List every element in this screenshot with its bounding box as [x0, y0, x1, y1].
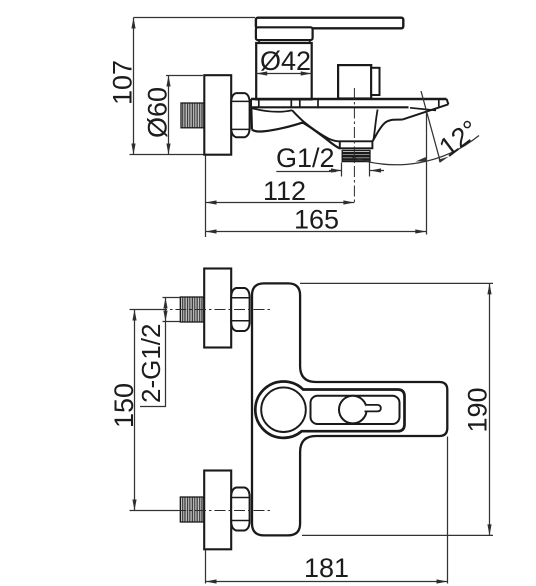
- spout sliver under deck (left): [251, 108, 292, 112]
- handle collar ring: [259, 40, 310, 43]
- svg-text:190: 190: [463, 387, 493, 432]
- spout right inner curve: [374, 110, 378, 140]
- deck plate band: [251, 99, 448, 107]
- svg-text:181: 181: [304, 553, 349, 583]
- body outline (T shape): [252, 283, 447, 535]
- wire: wall plane extension line (top view): [205, 156, 207, 238]
- spout crease curve: [292, 110, 340, 141]
- hex nut (lower): [231, 488, 249, 531]
- diverter knob: [338, 65, 371, 98]
- slot tab: [365, 405, 381, 412]
- svg-text:165: 165: [294, 205, 339, 235]
- node: upper mount centerline: [156, 309, 271, 311]
- svg-text:2-G1/2: 2-G1/2: [136, 324, 166, 404]
- threaded wall pipe (top view): [181, 103, 204, 128]
- dimension 2-G1/2 line with leader: [140, 298, 166, 407]
- svg-text:112: 112: [263, 176, 306, 206]
- escutcheon (upper): [204, 269, 231, 348]
- dimension 112 line: [206, 202, 355, 204]
- diverter side tab: [371, 68, 379, 95]
- wire: extension line at body top for dim 190: [300, 282, 493, 284]
- hex nut (top view): [231, 93, 249, 137]
- svg-text:Ø60: Ø60: [143, 87, 173, 138]
- escutcheon (top view): [204, 75, 231, 155]
- wire: extension lines for 2-G1/2: [163, 298, 181, 322]
- spout outlet thread G1/2: [342, 150, 370, 161]
- node: spout vertical centerline: [353, 88, 355, 205]
- wire: 12 degree vertical reference line: [426, 109, 428, 235]
- hex nut (upper): [231, 288, 249, 331]
- slot circle: [339, 396, 367, 424]
- dimension 150 vertical line: [134, 310, 136, 511]
- wire: G1/2 extension lines: [342, 163, 370, 177]
- svg-text:107: 107: [108, 60, 138, 105]
- spout left face: [250, 108, 253, 130]
- handle keyhole outer outline: [255, 381, 404, 437]
- dimension 12 degree arc: [352, 136, 479, 165]
- cartridge body: [256, 43, 312, 99]
- handle inner circle: [261, 387, 306, 432]
- deck tail underside 12 degree cut: [402, 104, 448, 119]
- svg-text:G1/2: G1/2: [276, 143, 335, 173]
- escutcheon (lower): [204, 471, 231, 550]
- threaded wall pipe (lower): [180, 497, 204, 522]
- wire: extension line below lower escutcheon: [205, 550, 207, 584]
- dimension 107 vertical line: [133, 18, 135, 155]
- dimension D60 vertical line: [168, 76, 170, 155]
- handle base: [256, 27, 313, 40]
- handle inner slot: [311, 396, 400, 424]
- svg-text:150: 150: [109, 383, 139, 428]
- label G1/2 with leader underline: [276, 143, 336, 173]
- spout outlet neck: [340, 141, 373, 148]
- lever handle bar: [256, 18, 403, 29]
- wire: extension line at escutcheon top for dim D60: [166, 75, 203, 77]
- wire: 12 degree slanted line: [421, 91, 440, 160]
- dimension D42 line: [256, 73, 312, 75]
- dimension G1/2 outside arrows: [329, 170, 384, 172]
- node: lower mount centerline: [156, 510, 271, 512]
- svg-text:Ø42: Ø42: [260, 46, 311, 76]
- spout lower sweep curve: [252, 123, 340, 149]
- dimension 165 line: [206, 231, 427, 233]
- arrowhead on slanted line: [438, 156, 449, 163]
- wire: extension line at lever top for dim 107: [134, 17, 256, 19]
- wire: extension line below body right corner: [447, 437, 449, 584]
- threaded wall pipe (upper): [180, 297, 204, 322]
- dimension 190 vertical line: [489, 283, 491, 535]
- wire: extension line at 150 bottom: [130, 510, 179, 512]
- wire: extension line at body bottom for dim 190: [302, 534, 493, 536]
- dimension 181 line: [206, 581, 448, 583]
- spout right outer curve: [373, 120, 403, 142]
- arrowhead on vertical line: [415, 157, 426, 162]
- deck seam lines: [259, 99, 439, 110]
- wire: extension line at 150 top: [130, 309, 165, 311]
- wire: extension line under escutcheon for dims 107 / D60: [130, 154, 205, 156]
